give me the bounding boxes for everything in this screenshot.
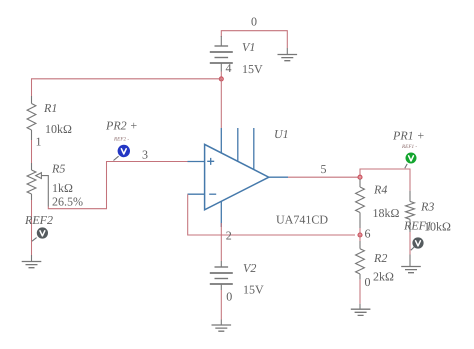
battery V1 (220, 36, 222, 46)
svg-text:R1: R1 (43, 101, 57, 115)
svg-text:PR1 +: PR1 + (392, 129, 425, 143)
junction node 5 (358, 175, 362, 179)
op-amp V+ pin (220, 128, 222, 153)
svg-text:UA741CD: UA741CD (276, 213, 328, 227)
svg-text:REF1 -: REF1 - (401, 144, 417, 150)
svg-text:REF2: REF2 (24, 213, 53, 227)
ground below R3 (409, 255, 411, 267)
svg-text:1kΩ: 1kΩ (52, 181, 73, 195)
junction node 4 (219, 77, 223, 81)
wire R3 to ground (409, 232, 411, 255)
svg-text:5: 5 (321, 162, 327, 176)
wire R5 wiper to op-amp plus input (48, 162, 187, 209)
svg-text:2: 2 (226, 229, 232, 243)
wire node 5 up and right to R3 (360, 169, 410, 191)
wire node 4 to R1 (32, 79, 222, 96)
resistor R3 (409, 191, 411, 202)
svg-text:15V: 15V (243, 283, 264, 297)
svg-text:3: 3 (142, 148, 148, 162)
op-amp minus sign (209, 193, 216, 195)
wire op-amp V- to V2 (220, 223, 222, 261)
probe PR2 (114, 156, 119, 160)
probe REF2 (32, 238, 37, 242)
op-amp offset pin a (237, 128, 239, 162)
wire V1 minus to node 4 junction (220, 72, 222, 79)
svg-text:6: 6 (365, 227, 371, 241)
wire net 0 top (V1 plus to ground) (221, 31, 287, 48)
op-amp U1 triangle (205, 144, 269, 209)
svg-text:1: 1 (36, 135, 42, 149)
battery V2 (220, 261, 222, 267)
wire R2 to ground (359, 280, 361, 304)
junction node 6 (358, 233, 362, 237)
svg-text:15V: 15V (242, 62, 263, 76)
op-amp output pin (269, 176, 288, 178)
wire V2 to ground (220, 290, 222, 320)
wire R4 to node 6 (359, 228, 361, 235)
op-amp V- pin (220, 201, 222, 227)
svg-text:18kΩ: 18kΩ (373, 206, 400, 220)
ground below REF2 (31, 255, 33, 262)
op-amp offset pin b (253, 128, 255, 170)
potentiometer R5 wiper arrow (41, 176, 48, 207)
svg-text:V2: V2 (243, 261, 256, 275)
op-amp minus input pin (188, 193, 205, 195)
wire node 1 (R1 to R5) (31, 140, 33, 163)
ground top right (286, 48, 288, 55)
svg-text:REF2 -: REF2 - (113, 137, 129, 143)
probe REF1 icon (411, 247, 414, 250)
probe PR1 (405, 164, 407, 168)
svg-text:R3: R3 (420, 200, 434, 214)
wire R5 bottom to ground (31, 200, 33, 255)
svg-text:R2: R2 (373, 251, 387, 265)
svg-text:10kΩ: 10kΩ (424, 220, 451, 234)
op-amp plus sign (207, 158, 214, 165)
svg-text:V1: V1 (242, 40, 255, 54)
wire op-amp output to node 5 (288, 176, 360, 178)
svg-text:4: 4 (226, 61, 232, 75)
resistor R1 (31, 96, 33, 104)
svg-text:26.5%: 26.5% (52, 195, 83, 209)
op-amp plus input pin (188, 161, 205, 163)
svg-text:0: 0 (365, 275, 371, 289)
svg-text:U1: U1 (274, 127, 289, 141)
potentiometer R5 body (31, 163, 33, 170)
svg-text:PR2 +: PR2 + (105, 119, 138, 133)
svg-text:0: 0 (226, 290, 232, 304)
svg-text:0: 0 (251, 15, 257, 29)
resistor R4 (359, 179, 361, 187)
svg-text:R5: R5 (51, 161, 65, 175)
svg-text:10kΩ: 10kΩ (45, 122, 72, 136)
wire node 4 down to op-amp V+ (220, 79, 222, 128)
wire op-amp minus input to node 6 (188, 194, 355, 235)
ground below R2 (359, 304, 361, 310)
ground below V2 (220, 320, 222, 326)
resistor R2 (359, 235, 361, 241)
svg-text:2kΩ: 2kΩ (373, 270, 394, 284)
svg-text:R4: R4 (373, 183, 387, 197)
